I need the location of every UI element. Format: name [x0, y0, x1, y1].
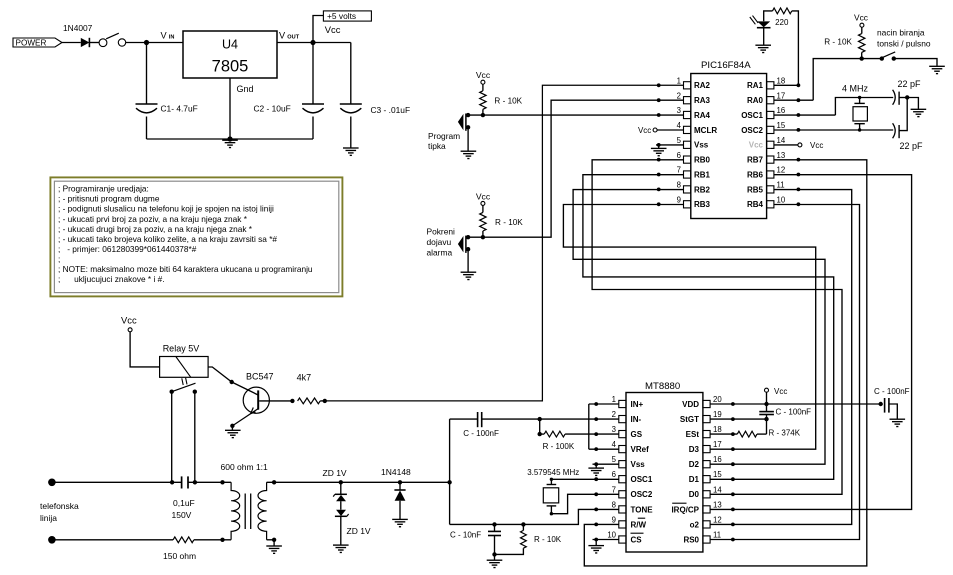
svg-text:7805: 7805 — [212, 58, 249, 76]
IC U1 PIC16F84A body — [691, 74, 767, 219]
node joint on MT8880 pin 11 wire — [731, 538, 735, 542]
svg-text:VDD: VDD — [682, 400, 699, 409]
svg-text:0,1uF: 0,1uF — [173, 498, 195, 508]
PIC pin 4 MCLR stub — [684, 126, 691, 133]
svg-text:Vcc: Vcc — [638, 126, 651, 135]
node joint on MT8880 pin 19 wire — [731, 417, 735, 421]
svg-text:4: 4 — [677, 121, 682, 130]
svg-text:16: 16 — [777, 106, 786, 115]
node joint on pin 1 wire — [657, 83, 661, 87]
overline R/W label — [638, 517, 645, 519]
svg-text:o2: o2 — [690, 520, 700, 529]
resistor R-10K alarm pull-up — [480, 212, 486, 231]
svg-text:RA2: RA2 — [694, 81, 711, 90]
wire R-100K to GS pin3 — [565, 433, 619, 435]
svg-text:4k7: 4k7 — [297, 372, 312, 382]
Vcc terminal at MCLR — [653, 128, 657, 132]
node dial-mode junction — [860, 56, 864, 60]
svg-text:; - ukucati drugi broj za pozi: ; - ukucati drugi broj za poziv, a na kr… — [58, 224, 253, 234]
svg-text:3: 3 — [612, 425, 616, 434]
svg-text:D2: D2 — [689, 460, 700, 469]
node ground rail junction — [227, 136, 232, 141]
PIC pin 17 RA0 stub — [767, 97, 774, 104]
svg-text:OSC2: OSC2 — [741, 126, 763, 135]
svg-text:600 ohm 1:1: 600 ohm 1:1 — [221, 462, 269, 472]
svg-text:19: 19 — [713, 410, 722, 419]
svg-text:8: 8 — [612, 500, 616, 509]
svg-text:1: 1 — [677, 77, 681, 86]
wire alarm button to ground — [467, 249, 469, 272]
svg-text:ESt: ESt — [686, 430, 700, 439]
LED D2 — [757, 21, 770, 27]
MT8880 pin 17 D3 stub — [703, 446, 710, 453]
svg-text:+5 volts: +5 volts — [327, 11, 356, 21]
wire LED to ground — [763, 28, 765, 45]
PIC pin 5 Vss stub — [684, 141, 691, 148]
svg-text:Vcc: Vcc — [476, 70, 491, 80]
wire Q1 base to R 4k7 — [259, 400, 292, 402]
PIC pin 16 OSC1 stub — [767, 111, 774, 118]
wire PIC RA1 pin18 — [774, 84, 799, 86]
svg-text:nacin biranja: nacin biranja — [877, 27, 925, 37]
wire pin16 to crystal top — [835, 98, 893, 116]
node joint on MT8880 pin 5 wire — [594, 462, 598, 466]
wire MT8880 RS0 to PIC RB4 — [710, 205, 859, 540]
node joint on MT8880 pin 16 wire — [731, 462, 735, 466]
MT8880 pin 19 StGT stub — [703, 416, 710, 423]
svg-text:12: 12 — [713, 515, 722, 524]
wire junction down to R-100K — [539, 419, 541, 434]
PIC pin 15 OSC2 stub — [767, 126, 774, 133]
wire MT8880 IN+ pin1 — [589, 403, 619, 405]
svg-text:150V: 150V — [172, 510, 192, 520]
wire pin14 to Vcc terminal — [774, 144, 798, 146]
wire input cap to IN- — [482, 418, 619, 420]
ground symbol under program button — [461, 150, 477, 152]
svg-text:MT8880: MT8880 — [645, 381, 680, 392]
svg-text:13: 13 — [713, 500, 722, 509]
wire MT8880 StGT pin19 — [710, 418, 766, 420]
svg-text:Gnd: Gnd — [237, 84, 254, 94]
svg-text:C - 100nF: C - 100nF — [874, 387, 910, 396]
svg-text:5: 5 — [612, 455, 617, 464]
svg-text:CS: CS — [631, 535, 643, 544]
node VDD cap junction — [879, 402, 883, 406]
relay contact switch — [170, 390, 174, 394]
svg-text:Vss: Vss — [694, 141, 709, 150]
wire MT8880 D0 to PIC RB0 — [592, 160, 842, 495]
MT8880 pin 13 IRQ/CP stub — [703, 506, 710, 513]
node transformer top-left junction — [220, 480, 224, 484]
ground symbol at MT8880 Vss — [588, 467, 604, 469]
node feedback junction — [538, 417, 542, 421]
overline CS label — [631, 532, 644, 534]
svg-text:StGT: StGT — [680, 415, 699, 424]
PIC pin 7 RB1 stub — [684, 171, 691, 178]
node joint on pin 8 wire — [657, 188, 661, 192]
wire C3 to ground — [350, 117, 352, 148]
ground symbol under LED — [755, 44, 771, 46]
svg-text:22 pF: 22 pF — [898, 79, 922, 89]
svg-text:MCLR: MCLR — [694, 126, 717, 135]
svg-text:8: 8 — [677, 181, 681, 190]
capacitor C-100nF steering — [759, 411, 774, 413]
capacitor C2 10uF — [302, 103, 324, 105]
svg-text:Vcc: Vcc — [325, 24, 341, 35]
capacitor C1 4.7uF — [136, 103, 158, 105]
wire program node to PIC RA4 — [468, 114, 683, 116]
svg-text:1N4007: 1N4007 — [63, 23, 93, 33]
node audio coupling junction — [447, 480, 451, 484]
svg-text:Vss: Vss — [631, 460, 646, 469]
wire MT8880 D2 to PIC RB2 — [573, 190, 825, 465]
wire MT8880 R/W pin9 to PIC RB7 — [584, 160, 867, 566]
node joint on MT8880 pin 18 wire — [731, 432, 735, 436]
wire R to alarm node — [482, 231, 484, 237]
wire C1 to ground rail — [146, 117, 148, 140]
svg-text:R - 10K: R - 10K — [494, 97, 522, 106]
svg-text:BC547: BC547 — [246, 372, 274, 382]
svg-text:RB3: RB3 — [694, 200, 711, 209]
node joint on MT8880 pin 17 wire — [731, 447, 735, 451]
ground symbol under U4 — [222, 139, 238, 141]
svg-text:C - 100nF: C - 100nF — [463, 429, 499, 438]
node joint on pin 6 wire — [657, 158, 661, 162]
flag +5 volts — [323, 11, 371, 21]
svg-text:OUT: OUT — [287, 34, 299, 40]
svg-text:RA0: RA0 — [747, 96, 764, 105]
wire MT8880 VDD pin20 rail — [710, 403, 881, 405]
wire MCLR to Vcc — [657, 129, 683, 131]
resistor R-100K feedback — [540, 433, 545, 435]
svg-text:RA3: RA3 — [694, 96, 711, 105]
svg-text:RB5: RB5 — [747, 185, 764, 194]
svg-text:6: 6 — [677, 151, 681, 160]
svg-text:RB2: RB2 — [694, 185, 711, 194]
node joint on MT8880 pin 9 wire — [594, 523, 598, 527]
node program button junction — [481, 113, 485, 117]
node transformer bottom-left junction — [220, 538, 224, 542]
node 22pF junction — [905, 95, 909, 99]
PIC pin 9 RB3 stub — [684, 201, 691, 208]
ground symbol at transformer — [266, 545, 282, 547]
wire 4k7 to PIC RA2 — [325, 85, 684, 401]
svg-text:telefonska: telefonska — [40, 501, 79, 511]
svg-text:; - ukucati tako brojeva kolik: ; - ukucati tako brojeva koliko zelite, … — [58, 234, 277, 244]
node joint on MT8880 pin 10 wire — [594, 538, 598, 542]
svg-text:4: 4 — [612, 440, 617, 449]
svg-text:Vcc: Vcc — [121, 315, 137, 326]
capacitor C-10nF — [494, 524, 496, 531]
resistor R 220 — [773, 8, 792, 14]
wire C2 to ground rail — [312, 117, 314, 140]
svg-text:GS: GS — [631, 430, 643, 439]
svg-text:; Programiranje uredjaja:: ; Programiranje uredjaja: — [58, 184, 149, 194]
MT8880 pin 12 o2 stub — [703, 521, 710, 528]
svg-text:IN+: IN+ — [631, 400, 644, 409]
svg-text:11: 11 — [713, 531, 721, 540]
ground symbol at PIC Vss — [658, 145, 660, 148]
wire D1 to power switch — [89, 42, 99, 44]
PIC pin 2 RA3 stub — [684, 97, 691, 104]
relay contact actuator marks — [182, 378, 183, 385]
node joint on MT8880 pin 13 wire — [731, 508, 735, 512]
overline IRQ label — [672, 502, 686, 504]
svg-text:C1- 4.7uF: C1- 4.7uF — [161, 104, 198, 114]
svg-text:Vcc: Vcc — [749, 141, 764, 150]
svg-text:R/W: R/W — [631, 520, 647, 529]
wire transformer secondary bottom to ground — [267, 539, 275, 541]
svg-text:IRQ/CP: IRQ/CP — [671, 505, 699, 514]
ground symbol under C-10nF — [487, 559, 503, 561]
svg-text:R - 374K: R - 374K — [769, 429, 801, 438]
node joint on MT8880 pin 14 wire — [731, 492, 735, 496]
svg-text:C - 10nF: C - 10nF — [450, 531, 481, 540]
wire C-10nF to ground node — [494, 536, 496, 555]
svg-text:RA1: RA1 — [747, 81, 764, 90]
ground rail wire — [147, 138, 314, 140]
node Vout junction — [310, 40, 315, 45]
svg-text:VRef: VRef — [631, 445, 650, 454]
capacitor C-100nF input — [477, 412, 479, 427]
node joint on MT8880 pin 15 wire — [731, 477, 735, 481]
svg-text:IN-: IN- — [631, 415, 642, 424]
svg-text:14: 14 — [713, 485, 722, 494]
terminal telephone line a — [48, 479, 56, 487]
svg-text:C - 100nF: C - 100nF — [776, 408, 812, 417]
svg-text:20: 20 — [713, 395, 722, 404]
PIC pin 18 RA1 stub — [767, 82, 774, 89]
node joint on MT8880 pin 1 wire — [594, 402, 598, 406]
ground symbol at VDD cap — [890, 418, 906, 420]
MT8880 pin 10 CS stub — [619, 536, 626, 543]
ground symbol under 1N4148 — [392, 518, 408, 520]
wire 22pF top to ground node — [899, 97, 907, 99]
wire MT8880 IRQ/CP to PIC RB6 — [710, 175, 912, 510]
svg-text:220: 220 — [775, 18, 789, 27]
svg-text:9: 9 — [677, 196, 681, 205]
svg-text:; - ukucati prvi broj za poziv: ; - ukucati prvi broj za poziv, a na kra… — [58, 214, 248, 224]
wire transformer secondary top to audio node — [267, 481, 450, 483]
PIC pin 8 RB2 stub — [684, 186, 691, 193]
node Vin junction — [144, 40, 149, 45]
wire MT8880 VRef pin4 — [589, 448, 619, 450]
wire crystal bottom to OSC2 pin7 — [551, 494, 618, 513]
svg-text:; - pritisnuti program dugme: ; - pritisnuti program dugme — [58, 194, 160, 204]
svg-text:9: 9 — [612, 515, 616, 524]
node joint on pin 10 wire — [797, 202, 801, 206]
resistor R-374K — [757, 433, 767, 435]
wire MT8880 ESt pin18 to R-374K — [710, 433, 737, 435]
MT8880 pin 2 IN- stub — [619, 416, 626, 423]
svg-text:V: V — [279, 31, 286, 41]
ground symbol at dial-mode switch — [929, 65, 945, 67]
capacitor 0,1uF 150V — [181, 476, 183, 488]
svg-text:17: 17 — [713, 440, 722, 449]
svg-text:1N4148: 1N4148 — [381, 467, 411, 477]
vertical wire IN+ to VRef — [588, 404, 590, 449]
node VDD junction — [764, 402, 768, 406]
svg-text:tonski / pulsno: tonski / pulsno — [877, 38, 931, 48]
svg-text:3: 3 — [677, 106, 681, 115]
svg-text:D1: D1 — [689, 475, 700, 484]
svg-text:linija: linija — [40, 513, 57, 523]
node 1N4148 junction — [398, 480, 402, 484]
svg-text:Program: Program — [428, 131, 460, 141]
wire 1N4148 to ground — [399, 501, 401, 519]
MT8880 pin 14 D0 stub — [703, 491, 710, 498]
ground symbol under C3 — [343, 147, 359, 149]
MT8880 pin 1 IN+ stub — [619, 400, 626, 407]
svg-text:IN: IN — [169, 34, 175, 40]
node joint on MT8880 pin 2 wire — [594, 417, 598, 421]
node cap right junction — [193, 480, 197, 484]
wire MT8880 Vss pin5 to ground — [593, 463, 619, 465]
ground symbol under zeners — [333, 544, 349, 546]
ground symbol at crystal caps — [911, 108, 927, 110]
svg-text:2: 2 — [612, 410, 616, 419]
svg-text:D3: D3 — [689, 445, 700, 454]
wire MT8880 TONE pin8 to filter — [450, 509, 619, 524]
power switch SW1 — [99, 39, 107, 47]
svg-text:OSC2: OSC2 — [631, 490, 653, 499]
MT8880 pin 5 Vss stub — [619, 461, 626, 468]
wire pin18 up to LED resistor — [792, 11, 799, 85]
wire relay contact right to line cap — [194, 392, 196, 483]
node joint on MT8880 pin 4 wire — [594, 447, 598, 451]
wire cap to StGT and R-374K — [766, 415, 768, 435]
svg-text:7: 7 — [677, 166, 681, 175]
svg-text:6: 6 — [612, 470, 616, 479]
svg-text:PIC16F84A: PIC16F84A — [701, 60, 751, 71]
wire 22pF bottom to node — [899, 98, 907, 131]
node joint on MT8880 pin 8 wire — [594, 508, 598, 512]
svg-text:R - 10K: R - 10K — [495, 218, 523, 227]
resistor R-10K tone load — [522, 524, 524, 530]
svg-text:TONE: TONE — [631, 505, 654, 514]
wire MT8880 o2 to PIC RB5 — [710, 190, 852, 525]
svg-text:18: 18 — [777, 77, 786, 86]
svg-text:18: 18 — [713, 425, 722, 434]
svg-text:POWER: POWER — [16, 39, 47, 48]
wire Vin down to C1 — [146, 43, 148, 105]
svg-text:D0: D0 — [689, 490, 700, 499]
node joint on MT8880 pin 3 wire — [594, 432, 598, 436]
wire MT8880 D1 to PIC RB1 — [583, 175, 834, 480]
svg-text:15: 15 — [713, 470, 722, 479]
svg-text:4 MHz: 4 MHz — [842, 84, 869, 94]
svg-text:Vcc: Vcc — [476, 192, 491, 202]
svg-text:U4: U4 — [222, 38, 238, 52]
wire Vout to C3 — [350, 43, 352, 105]
PIC pin 14 Vcc stub — [767, 141, 774, 148]
PIC pin 6 RB0 stub — [684, 156, 691, 163]
node C-10nF junction — [492, 522, 496, 526]
node collector junction — [230, 380, 234, 384]
wire relay contact left to line cap — [171, 392, 173, 483]
MT8880 pin 6 OSC1 stub — [619, 476, 626, 483]
svg-text:ZD 1V: ZD 1V — [323, 468, 347, 478]
svg-text:RS0: RS0 — [683, 535, 699, 544]
MT8880 pin 3 GS stub — [619, 431, 626, 438]
svg-text:10: 10 — [777, 196, 786, 205]
MT8880 pin 20 VDD stub — [703, 400, 710, 407]
node R-10K tone junction — [521, 522, 525, 526]
PIC pin 10 RB4 stub — [767, 201, 774, 208]
wire Vout down to C2 — [312, 43, 314, 105]
wire R220 to LED — [764, 11, 773, 21]
vertical wire audio node — [449, 419, 451, 524]
svg-text:C3 - .01uF: C3 - .01uF — [371, 105, 411, 115]
wire line b to R 150 — [52, 539, 173, 541]
svg-text:15: 15 — [777, 121, 786, 130]
svg-text:RA4: RA4 — [694, 111, 711, 120]
PIC pin 13 RB7 stub — [767, 156, 774, 163]
wire MT8880 OSC1 pin6 to crystal — [551, 478, 618, 480]
node Vss junction — [657, 143, 661, 147]
wire U4 Gnd down to ground rail — [229, 78, 231, 139]
svg-text:Relay 5V: Relay 5V — [163, 343, 200, 353]
PIC pin 1 RA2 stub — [684, 82, 691, 89]
svg-text:7: 7 — [612, 485, 616, 494]
svg-text:dojavu: dojavu — [427, 237, 452, 247]
node secondary junction — [272, 480, 276, 484]
svg-text:22 pF: 22 pF — [900, 141, 924, 151]
svg-text:17: 17 — [777, 91, 786, 100]
svg-text:OSC1: OSC1 — [741, 111, 763, 120]
wire cap to ground — [889, 404, 897, 419]
wire PIC OSC2 pin15 to crystal bottom — [774, 129, 893, 131]
node joint on pin 12 wire — [797, 173, 801, 177]
wire program button to ground — [467, 127, 469, 150]
wire Vss pin5 to ground — [656, 144, 684, 146]
wire R-10K to ground node — [495, 548, 524, 554]
svg-text:12: 12 — [777, 166, 786, 175]
diode D1 1N4007 — [81, 38, 90, 47]
MT8880 pin 9 R/W stub — [619, 521, 626, 528]
svg-text:; ukljucujuci znakove * i: ; ukljucujuci znakove * i #. — [58, 274, 165, 284]
svg-text:Vcc: Vcc — [810, 141, 823, 150]
node joint on MT8880 pin 7 wire — [594, 492, 598, 496]
node joint on pin 18 wire — [797, 83, 801, 87]
svg-text:RB6: RB6 — [747, 170, 764, 179]
svg-text:C2 - 10uF: C2 - 10uF — [254, 104, 291, 114]
switch dial mode select — [862, 58, 882, 60]
wire Vout to C3 column — [277, 42, 351, 44]
svg-text:R - 10K: R - 10K — [824, 38, 852, 47]
wire 22pF node to ground — [907, 98, 918, 109]
svg-text:150 ohm: 150 ohm — [163, 551, 196, 561]
node joint on MT8880 pin 20 wire — [731, 402, 735, 406]
svg-text:RB4: RB4 — [747, 200, 764, 209]
MT8880 pin 7 OSC2 stub — [619, 491, 626, 498]
wire Q1 emitter to ground — [233, 409, 259, 426]
svg-text:5: 5 — [677, 136, 682, 145]
svg-text:RB7: RB7 — [747, 156, 764, 165]
svg-text:OSC1: OSC1 — [631, 475, 653, 484]
node alarm button junction — [481, 235, 485, 239]
wire R to switch node — [861, 52, 863, 58]
svg-text:13: 13 — [777, 151, 786, 160]
ground symbol under alarm button — [461, 271, 477, 273]
wire R150 to transformer — [194, 539, 231, 541]
wire R to program node — [482, 109, 484, 115]
node zener junction — [339, 480, 343, 484]
PIC pin 3 RA4 stub — [684, 111, 691, 118]
wire pin17 up to mode switch — [813, 59, 862, 101]
svg-text:RB0: RB0 — [694, 156, 711, 165]
wire Vout up to +5 volts flag — [313, 16, 323, 43]
